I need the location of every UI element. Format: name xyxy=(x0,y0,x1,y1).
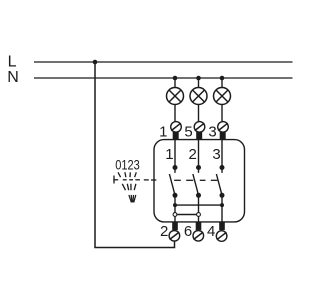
svg-text:2: 2 xyxy=(160,223,168,240)
svg-text:4: 4 xyxy=(207,223,215,240)
svg-text:6: 6 xyxy=(184,223,192,240)
svg-text:3: 3 xyxy=(212,146,220,163)
svg-text:N: N xyxy=(7,69,19,86)
svg-text:3: 3 xyxy=(208,123,216,140)
svg-text:1: 1 xyxy=(165,146,173,163)
svg-text:0123: 0123 xyxy=(115,158,140,173)
svg-text:2: 2 xyxy=(189,146,197,163)
svg-text:L: L xyxy=(8,54,17,71)
svg-text:1: 1 xyxy=(159,123,167,140)
svg-text:5: 5 xyxy=(184,123,192,140)
